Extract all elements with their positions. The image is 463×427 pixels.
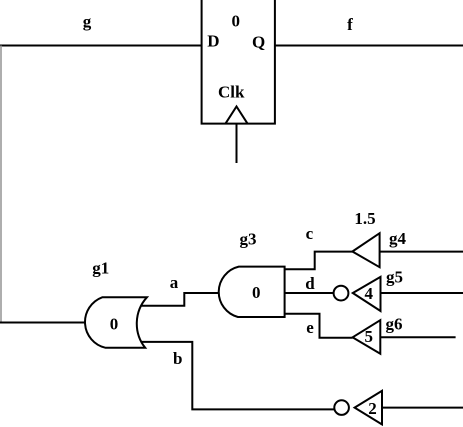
svg-text:0: 0 [252,283,261,302]
clock edge triangle [226,107,248,124]
svg-text:b: b [173,349,182,368]
wire f (net f, from Q output) [275,45,463,47]
wire (OR gate g1 input) [0,322,86,324]
svg-text:e: e [306,318,314,337]
inverter bubble g5 [334,286,349,301]
or-gate g1 [85,297,147,348]
wire c (g3 to g4) [285,252,353,270]
wire d (g3 to g5 bubble) [285,292,334,294]
g6 output wire [380,336,455,338]
inverter g5 triangle [353,277,381,311]
svg-text:a: a [170,273,179,292]
wire b (g1 to bottom inverter) [142,342,335,410]
g4 output wire [380,251,463,253]
buffer g4 [352,233,379,267]
D flip-flop body (top edge cut off above canvas) [202,0,275,124]
wire g (net g, into D input) [0,45,202,47]
wire a (g1 to g3) [142,293,220,306]
svg-text:D: D [207,32,219,51]
svg-text:1.5: 1.5 [354,209,375,228]
bottom inverter output wire [382,407,463,409]
svg-text:0: 0 [231,12,240,31]
svg-text:0: 0 [110,314,119,333]
svg-text:d: d [305,274,315,293]
svg-text:f: f [347,15,353,34]
buffer g6 [353,320,381,354]
g5 output wire [381,292,463,294]
svg-text:g3: g3 [240,230,257,249]
svg-text:g4: g4 [389,229,407,248]
svg-text:g5: g5 [386,268,403,287]
inverter bubble (bottom inverter) [334,400,349,415]
inverter triangle (bottom, value 2) [355,391,382,425]
and-gate g3 [219,267,285,317]
svg-text:4: 4 [365,284,374,303]
wire e (g3 to g6) [285,314,353,338]
svg-text:g1: g1 [92,259,109,278]
svg-text:5: 5 [364,327,373,346]
svg-text:Clk: Clk [218,83,245,102]
svg-text:g6: g6 [386,315,403,334]
clock stem wire [236,124,238,163]
svg-text:c: c [306,224,314,243]
svg-text:Q: Q [252,33,265,52]
svg-text:2: 2 [368,399,377,418]
wire (left vertical from g down to OR input) [0,46,2,323]
svg-text:g: g [83,12,92,31]
